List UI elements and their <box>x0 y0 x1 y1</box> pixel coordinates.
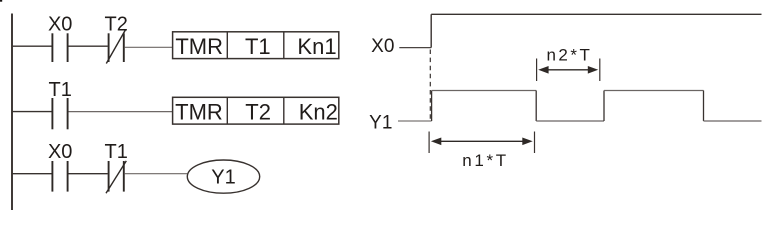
left power rail <box>11 14 13 211</box>
wire rung2: rail to T1 <box>12 111 52 113</box>
n1*T left tick <box>428 132 430 154</box>
Y1 waveform high level 1 <box>432 90 537 92</box>
Y1 waveform falling edge 2 <box>703 91 705 122</box>
contact X0 (NO) rung1 <box>48 13 72 62</box>
wire rung1: rail to X0 <box>12 45 52 47</box>
wire rung3: T1 to coil Y1 <box>125 173 188 175</box>
svg-text:T1: T1 <box>105 141 128 163</box>
n2*T dimension arrow <box>538 66 598 74</box>
X0 waveform rising edge <box>430 14 432 47</box>
contact X0 (NO) rung3 <box>48 141 72 192</box>
n2*T left tick <box>536 59 538 82</box>
svg-text:n2*T: n2*T <box>546 45 590 64</box>
svg-text:T2: T2 <box>105 13 128 35</box>
svg-text:TMR: TMR <box>175 34 223 59</box>
function block TMR T1 Kn1 <box>173 32 339 59</box>
wire: X0 label lead <box>399 47 431 49</box>
wire rung3: X0 to T1 <box>69 173 108 175</box>
Y1 waveform rising edge 1 <box>431 91 433 122</box>
svg-text:T2: T2 <box>245 99 271 124</box>
corner mark <box>0 0 2 2</box>
Y1 waveform low level 2 <box>704 120 762 122</box>
svg-text:TMR: TMR <box>175 99 223 124</box>
wire rung2: T1 to TMR box <box>69 111 173 113</box>
Y1 waveform falling edge 1 <box>535 91 537 122</box>
svg-text:X0: X0 <box>371 36 394 57</box>
function block TMR T2 Kn2 <box>173 97 339 124</box>
n1*T dimension arrow <box>431 138 533 146</box>
n2*T right tick <box>599 59 601 82</box>
n1*T right tick <box>534 132 536 154</box>
svg-text:Y1: Y1 <box>369 113 392 134</box>
Y1 waveform high level 2 <box>604 90 704 92</box>
Y1 waveform rising edge 2 <box>603 91 605 122</box>
wire rung1: T2 to TMR box <box>125 46 173 48</box>
X0 waveform high level <box>431 13 761 15</box>
contact T1 (NO) rung2 <box>49 79 72 130</box>
wire: Y1 label lead <box>398 120 432 122</box>
svg-text:X0: X0 <box>48 141 72 163</box>
svg-text:X0: X0 <box>48 13 72 35</box>
dashed sync line at X0 edge <box>429 50 431 121</box>
wire rung3: rail to X0 <box>12 173 52 175</box>
Y1 waveform low level 1 <box>536 120 604 122</box>
svg-text:n1*T: n1*T <box>462 151 506 170</box>
contact T2 (NC) rung1 <box>105 13 128 63</box>
contact T1 (NC) rung3 <box>105 141 128 193</box>
wire rung1: X0 to T2 <box>69 45 108 47</box>
svg-text:Kn1: Kn1 <box>297 34 336 59</box>
svg-text:T1: T1 <box>245 34 271 59</box>
svg-text:Y1: Y1 <box>211 166 235 188</box>
svg-text:T1: T1 <box>49 79 72 101</box>
output coil Y1 <box>187 160 259 193</box>
svg-text:Kn2: Kn2 <box>299 99 338 124</box>
